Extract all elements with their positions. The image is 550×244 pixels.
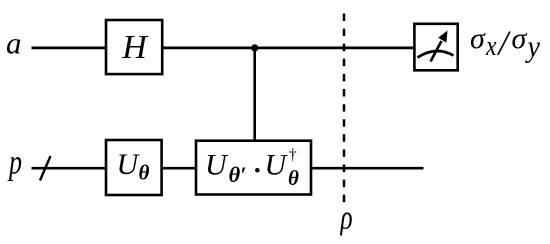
svg-text:θ: θ [288,166,299,190]
svg-text:H: H [121,29,149,66]
svg-text:σ: σ [470,22,486,55]
measurement meter arc [418,51,454,58]
svg-text:θ: θ [139,160,150,184]
measurement needle [431,41,442,62]
svg-text:θ′: θ′ [229,162,247,187]
gate U_theta label [117,148,150,185]
svg-text:U: U [205,149,229,182]
gate U_theta' . U_theta-dagger label [205,147,299,192]
wire: register p horizontal [32,167,424,170]
svg-text:/: / [497,24,512,63]
measurement arrowhead [438,31,447,43]
svg-text:a: a [6,26,22,61]
wire: control vertical from dot to U box [253,48,256,141]
gate H box [106,20,162,74]
gate U_theta box [106,140,162,195]
dashed barrier line [343,14,346,203]
svg-text:†: † [289,147,297,164]
svg-text:·: · [251,150,264,192]
svg-text:p: p [7,143,22,182]
gate U_theta' . U_theta-dagger box [196,141,311,195]
measurement box [414,24,457,71]
control dot [251,44,258,51]
svg-text:σ: σ [512,22,528,55]
svg-text:U: U [265,149,289,182]
label sigma_x / sigma_y [470,22,541,64]
bus slash on p wire [40,156,51,181]
wire: qubit a horizontal [32,47,415,50]
svg-text:y: y [525,30,541,63]
svg-text:x: x [485,30,497,61]
svg-text:U: U [117,148,141,181]
svg-text:ρ: ρ [340,200,353,236]
